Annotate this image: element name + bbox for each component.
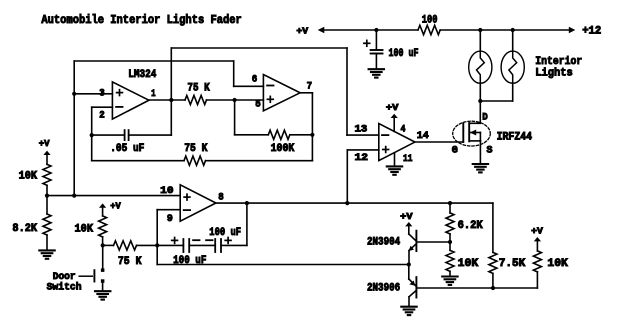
wire to 75K [103,244,114,246]
node junction 10K/75K/switch [101,243,105,247]
wire pin 6 input [234,85,264,87]
resistor R2 75K [185,95,206,104]
node junction bias/divider [72,194,76,198]
wire C1 top stem [375,30,377,49]
resistor R8 75K (bottom) [114,241,137,250]
wire Q1 base [416,241,450,243]
resistor R4 100K [268,130,289,139]
wire 100K left vertical [234,100,236,135]
svg-text:1: 1 [151,89,156,100]
svg-text:10: 10 [160,186,173,197]
wire .05uF left segment [92,134,125,136]
wire pin 2 input [92,106,113,108]
wire Q2 base bus [416,287,537,289]
svg-text:2: 2 [99,110,105,121]
node junction output/caps [245,201,249,205]
svg-text:7: 7 [307,82,313,93]
svg-text:13: 13 [355,124,368,135]
node junction emitters [407,262,411,266]
wire .05uF right segment [129,134,172,136]
node junction output/pin12 [345,201,349,205]
wire 10K to ground [449,271,451,275]
svg-text:S: S [487,145,493,156]
op-amp U1a LM324 (pins 3,2,1) [112,82,148,119]
wire U1b output vertical [311,93,313,161]
svg-text:+V: +V [386,102,399,113]
wire bottom bus to transistors [157,264,409,266]
wire pin 9 input [157,209,180,211]
node junction output/6.2K [448,201,452,205]
capacitor C3 100uF polarity + [172,238,178,244]
op-amp U1b (pins 6,5,7) [263,75,300,111]
node junction base Q1 [448,240,452,244]
svg-text:100 uF: 100 uF [389,48,419,60]
wire pin 2 vertical [91,107,93,135]
svg-text:Automobile Interior Lights Fad: Automobile Interior Lights Fader [41,13,241,27]
wire U1c output to gate [415,141,463,143]
svg-text:100: 100 [422,15,438,27]
wire caps to output vertical [221,244,247,246]
resistor R9 6.2K [446,213,454,234]
node junction rail/lamp2 [511,28,515,32]
wire drain lead [479,101,481,123]
node junction base Q2/7.5K [491,286,495,290]
svg-text:14: 14 [417,131,429,142]
wire to 8.2K [46,196,48,214]
op-amp U1b minus input mark [267,85,273,87]
pin 11 ground stem [394,153,396,166]
svg-text:7.5K: 7.5K [499,258,526,270]
lamp L2 (interior light) [501,51,524,83]
svg-text:G: G [452,145,458,156]
node junction pin9/75K/caps [155,243,159,247]
ground pin 11 [387,166,402,174]
node junction lamps/drain [478,99,482,103]
svg-text:+V: +V [296,26,308,37]
svg-text:100K: 100K [271,143,295,155]
op-amp U1c (pins 13,12,14) [379,124,415,161]
svg-text:75 K: 75 K [187,82,210,94]
svg-text:10K: 10K [19,170,38,182]
op-amp U1c minus input mark [382,134,388,136]
svg-text:Lights: Lights [535,67,573,79]
resistor R7 10K (door) [99,216,107,237]
svg-text:10K: 10K [547,258,568,270]
wire feedback vertical to pin 13 [346,48,348,135]
op-amp U1a minus input mark [116,106,122,108]
capacitor C4 100uF plates [215,239,221,252]
pin 4 +V arrow [391,114,398,132]
label pointer dash [79,275,92,277]
wire pin 6 vertical [233,61,235,86]
svg-text:11: 11 [403,154,413,165]
wire caps vertical [246,203,248,245]
resistor R11 7.5K [489,252,497,273]
node junction divider [45,194,49,198]
wire top supply rail left segment [324,29,418,31]
wire 10K to junction [46,185,48,195]
ground 10K [442,277,457,285]
op-amp U1d minus input mark [184,209,190,211]
wire pin 9 vertical [156,210,158,265]
wire 10K right bottom [536,272,538,288]
wire U1b output [300,92,312,94]
svg-text:100 uF: 100 uF [209,227,241,239]
node junction 100K/output [310,133,314,137]
wire top feedback horizontal [171,47,347,49]
capacitor C1 100uF plates [371,50,383,54]
ground Q2 collector [401,307,416,315]
wire pin 12 vertical to output bus [346,150,348,203]
wire top rail right arrowhead [569,27,576,34]
+V arrow (door column) [99,203,106,216]
wire source lead [479,141,481,163]
wire 6.2K to 10K [449,234,451,250]
svg-text:3: 3 [99,88,105,99]
wire 7.5K bottom [492,273,494,288]
ground switch [95,291,110,299]
wire pin 10 input [47,195,180,197]
resistor R12 10K (right) [533,251,541,272]
svg-text:6.2K: 6.2K [458,220,483,232]
wire lamp1 top lead [479,30,481,51]
svg-text:Switch: Switch [47,281,82,293]
svg-text:LM324: LM324 [128,69,156,81]
wire C1 bottom stem [375,54,377,69]
svg-text:4: 4 [401,124,406,135]
wire pin 12 input [347,149,379,151]
capacitor C4 100uF polarity + [225,238,231,244]
wire switch bottom lead [102,283,104,290]
wire top supply rail right segment [440,29,569,31]
op-amp U1a plus input mark [117,90,123,96]
resistor R6 8.2K [43,214,51,235]
svg-text:.05 uF: .05 uF [110,143,144,155]
wire lamp1 bottom lead [479,83,481,101]
svg-text:75 K: 75 K [118,256,142,268]
ground 8.2K [39,250,54,258]
op-amp U1d (pins 10,9,8) [180,185,216,221]
wire top rail left arrowhead [318,27,325,34]
svg-text:10K: 10K [458,258,479,270]
node junction pin2/.05uF [90,133,94,137]
capacitor C1 100uF polarity + [364,40,370,46]
wire lower 75K right segment [206,160,313,162]
svg-text:12: 12 [355,153,369,164]
wire 10K to junction [102,237,104,246]
wire bias horizontal [74,60,234,62]
wire pin2 node vertical to lower 75K [91,135,93,161]
node junction rail/lamp1 [478,28,482,32]
wire 6.2K top [449,203,451,213]
svg-text:2N3904: 2N3904 [367,237,400,249]
svg-text:+V: +V [39,138,50,149]
wire 75K to caps [137,244,184,246]
svg-text:8: 8 [218,192,224,203]
capacitor C4 polarity - [206,239,212,241]
node junction pin1/feedback [169,98,173,102]
capacitor C3 100uF plates [183,239,189,252]
+V arrow (Q1 collector) [405,222,412,234]
svg-text:9: 9 [167,214,173,225]
wire lamp2 top lead [512,30,514,51]
svg-text:8.2K: 8.2K [12,223,37,235]
transistor M1 IRFZ44 body [453,121,491,146]
capacitor C2 .05 uF plates [125,130,129,140]
node junction pin5/100K [233,98,237,102]
node junction rail/C1 [374,28,378,32]
resistor R10 10K [446,250,454,271]
svg-text:Interior: Interior [535,56,582,68]
wire lamp join [480,100,512,102]
wire 7.5K top [492,203,494,252]
wire switch top lead [102,245,104,268]
+V arrow (right column) [534,237,541,251]
wire pin 13 input [347,134,379,136]
wire pin 8 output bus [216,202,493,204]
wire 75K to pin 5 [207,99,264,101]
svg-text:5: 5 [255,100,260,111]
ground C1 [369,69,384,77]
svg-text:+V: +V [400,211,413,222]
resistor 100 (rail) [418,25,440,34]
resistor R5 10K [43,164,51,185]
wire pin 1 output [149,99,185,101]
svg-text:IRFZ44: IRFZ44 [497,131,533,143]
wire bias vertical [73,61,75,196]
svg-text:2N3906: 2N3906 [367,283,400,295]
node junction bias/pin3 [72,92,76,96]
svg-text:+12: +12 [582,25,601,37]
capacitor C3 polarity - [193,239,199,241]
op-amp U1c plus input mark [383,147,389,153]
wire 100K right segment [290,134,313,136]
wire lamp2 bottom lead [512,83,514,101]
svg-text:+V: +V [531,226,543,237]
svg-text:6: 6 [252,75,257,86]
svg-text:D: D [482,113,488,124]
switch SW1 door switch [94,268,104,282]
op-amp U1d plus input mark [184,194,190,200]
resistor R3 75K (lower) [184,156,205,165]
wire 8.2K to ground [46,235,48,249]
transistor Q2 2N3906 [409,265,417,306]
wire 100K left segment [235,134,269,136]
wire feedback vertical x171 [170,48,172,135]
lamp L1 (interior light) [469,51,492,83]
svg-text:+V: +V [110,200,121,211]
svg-text:10K: 10K [75,223,94,235]
wire between caps [189,244,215,246]
wire lower 75K left segment [92,160,184,162]
transistor Q1 2N3904 [409,231,417,265]
op-amp U1b plus input mark [267,96,273,102]
ground source [473,164,488,172]
wire pin 3 input [74,93,112,95]
+V arrow (left divider) [43,151,50,165]
svg-text:75 K: 75 K [184,143,208,155]
